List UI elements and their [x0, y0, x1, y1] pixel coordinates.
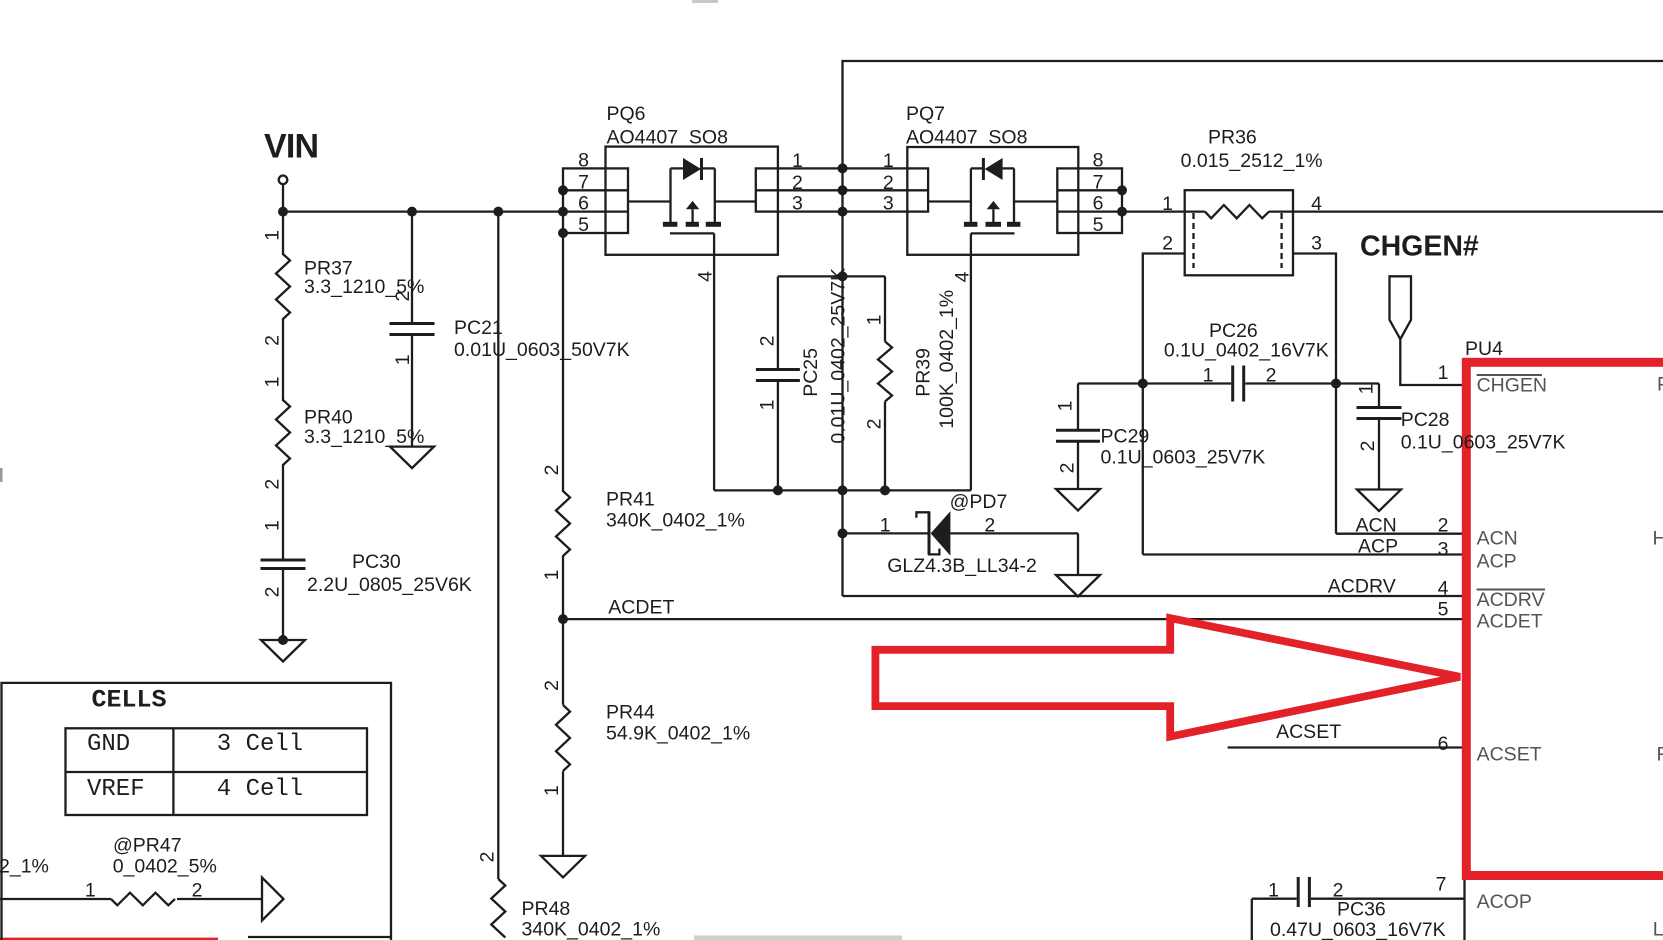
wire PC30 to ground [282, 569, 284, 641]
svg-text:PR36: PR36 [1208, 126, 1257, 148]
ground below PC30 [261, 640, 305, 662]
wire PR36 pin4 to right edge [1269, 210, 1663, 212]
red sliver bottom left [0, 938, 218, 940]
node ACDRV net label [1328, 576, 1396, 598]
wire net ACDET [563, 618, 1464, 620]
svg-text:HI: HI [1653, 527, 1663, 549]
ground below PC28 [1357, 490, 1401, 512]
capacitor C PC21 [390, 212, 630, 447]
wire PR37 to PR40 [282, 318, 284, 401]
svg-text:F: F [1657, 744, 1663, 766]
svg-text:2_1%: 2_1% [0, 856, 49, 878]
svg-text:5: 5 [1093, 214, 1104, 236]
svg-text:PC36: PC36 [1337, 899, 1386, 921]
node junction PC26 dots [1138, 379, 1341, 389]
node junction dots central column [838, 163, 848, 216]
svg-text:5: 5 [578, 214, 589, 236]
svg-text:ACSET: ACSET [1477, 744, 1542, 766]
capacitor C PC28 labels [1401, 409, 1566, 454]
svg-text:2: 2 [262, 479, 284, 490]
node junction rail-PR37 [278, 207, 288, 217]
wire net ACSET [1228, 746, 1464, 748]
svg-text:2: 2 [883, 172, 894, 194]
node junction dots PQ6 left stack [558, 185, 568, 238]
svg-text:3: 3 [1438, 538, 1449, 560]
node junction dots PQ7 right stack [1117, 185, 1127, 216]
svg-text:ACN: ACN [1477, 527, 1518, 549]
capacitor C PC26 [1078, 320, 1379, 402]
ground below PC29 [1056, 489, 1100, 511]
wire PR41 to PR44 [562, 556, 564, 705]
svg-text:0_0402_5%: 0_0402_5% [113, 856, 217, 878]
svg-text:2: 2 [192, 880, 203, 902]
svg-text:GLZ4.3B_LL34-2: GLZ4.3B_LL34-2 [887, 555, 1037, 577]
red highlight box around PU4 [1466, 362, 1663, 875]
svg-text:ACDET: ACDET [1477, 610, 1543, 632]
svg-text:0.1U_0603_25V7K: 0.1U_0603_25V7K [1401, 432, 1566, 454]
svg-text:ACP: ACP [1358, 535, 1398, 557]
svg-text:7: 7 [578, 171, 589, 193]
svg-text:VREF: VREF [87, 776, 145, 803]
svg-text:2.2U_0805_25V6K: 2.2U_0805_25V6K [307, 574, 472, 596]
svg-text:1: 1 [262, 230, 284, 241]
svg-text:@PR47: @PR47 [113, 835, 182, 857]
svg-text:1: 1 [1203, 365, 1214, 387]
svg-text:PC30: PC30 [352, 551, 401, 573]
svg-text:ACDRV: ACDRV [1477, 589, 1545, 611]
svg-text:AO4407_SO8: AO4407_SO8 [607, 127, 728, 149]
svg-text:2: 2 [1266, 365, 1277, 387]
wire PQ7 to PR36 pin1 [1122, 210, 1205, 212]
partial label left edge [0, 856, 49, 878]
svg-text:@PD7: @PD7 [950, 491, 1008, 513]
diode D PD7 zener [843, 491, 1079, 577]
node CHGEN flag [1390, 276, 1465, 385]
svg-text:1: 1 [792, 150, 803, 172]
svg-text:0.47U_0603_16V7K: 0.47U_0603_16V7K [1270, 919, 1446, 940]
svg-text:PC29: PC29 [1101, 426, 1150, 448]
svg-text:PR44: PR44 [606, 702, 655, 724]
svg-text:2: 2 [1057, 463, 1079, 474]
svg-text:1: 1 [757, 400, 779, 411]
pin numbers PU4 [1436, 362, 1449, 895]
svg-text:6: 6 [1438, 733, 1449, 755]
capacitor C PC36 [1268, 877, 1446, 940]
svg-text:340K_0402_1%: 340K_0402_1% [606, 510, 745, 532]
svg-text:1: 1 [262, 520, 284, 531]
svg-text:3.3_1210_5%: 3.3_1210_5% [304, 426, 424, 448]
wire PR40 to PC30 [282, 464, 284, 560]
ground below PR44 [541, 856, 585, 878]
svg-text:0.01U_0603_50V7K: 0.01U_0603_50V7K [454, 339, 630, 361]
wire PC25 PR39 top link [778, 275, 885, 277]
node junction gate bus dots [773, 271, 890, 495]
resistor R PR39 [864, 276, 959, 490]
svg-text:0.01U_0402_25V7K: 0.01U_0402_25V7K [828, 268, 850, 444]
wire PR44 to ground [562, 771, 564, 856]
svg-text:3: 3 [1311, 233, 1322, 255]
svg-text:2: 2 [262, 335, 284, 346]
svg-text:1: 1 [880, 515, 891, 537]
resistor R PR40 [262, 376, 425, 489]
svg-text:3: 3 [883, 193, 894, 215]
svg-text:1: 1 [541, 785, 563, 796]
node ACP net label [1358, 535, 1398, 557]
wire PQ6 pin4 gate drop [713, 255, 715, 491]
svg-text:ACDET: ACDET [608, 597, 674, 619]
svg-text:AO4407_SO8: AO4407_SO8 [906, 127, 1027, 149]
op-amp PU4 charger IC box edge [1465, 338, 1504, 940]
svg-text:0.015_2512_1%: 0.015_2512_1% [1181, 150, 1323, 172]
wire gate bus PQ6 to PQ7 [714, 489, 971, 491]
ground below PD7 [1056, 575, 1100, 597]
svg-text:ACP: ACP [1477, 551, 1517, 573]
svg-text:PR41: PR41 [606, 489, 655, 511]
svg-text:0.1U_0603_25V7K: 0.1U_0603_25V7K [1101, 446, 1266, 468]
capacitor C PC25 [756, 268, 850, 490]
svg-text:2: 2 [541, 465, 563, 476]
svg-text:VIN: VIN [264, 128, 318, 166]
svg-text:54.9K_0402_1%: 54.9K_0402_1% [606, 723, 750, 745]
svg-text:ACSET: ACSET [1276, 721, 1341, 743]
wire PQ6 pin5 column down to PR41 [562, 233, 564, 492]
resistor R PR36 sense [1162, 126, 1323, 275]
svg-text:8: 8 [1093, 149, 1104, 171]
wire PD7 cathode to ground [1077, 533, 1079, 575]
svg-text:1: 1 [1438, 362, 1449, 384]
svg-text:CHGEN#: CHGEN# [1360, 231, 1479, 263]
misc cut-off marks [0, 0, 902, 940]
svg-text:1: 1 [392, 354, 414, 365]
svg-text:2: 2 [757, 336, 779, 347]
svg-text:7: 7 [1093, 171, 1104, 193]
svg-text:P: P [1657, 374, 1663, 396]
node junction ACDET tap [558, 614, 568, 624]
svg-text:1: 1 [85, 880, 96, 902]
svg-text:PC21: PC21 [454, 317, 503, 339]
red annotation arrow [875, 618, 1460, 737]
svg-text:PU4: PU4 [1465, 338, 1503, 360]
off-page pointer PR47 [262, 878, 284, 921]
svg-text:1: 1 [1162, 193, 1173, 215]
svg-text:2: 2 [541, 680, 563, 691]
wire PR36 pin2 drop [1143, 254, 1185, 555]
svg-text:1: 1 [1356, 384, 1378, 395]
svg-text:2: 2 [477, 852, 499, 863]
wire rail to PR48 [497, 212, 499, 879]
node junction PC30-gnd [278, 635, 288, 645]
node ACDET net label [608, 597, 674, 619]
resistor R PR41 [541, 465, 745, 581]
svg-text:1: 1 [1055, 401, 1077, 412]
node junction rail-PR48 [493, 207, 503, 217]
svg-text:0.1U_0402_16V7K: 0.1U_0402_16V7K [1164, 340, 1329, 362]
svg-text:PQ7: PQ7 [906, 103, 945, 125]
resistor R PR44 [541, 680, 750, 796]
capacitor C PC30 [261, 520, 472, 597]
svg-text:2: 2 [392, 291, 414, 302]
svg-text:7: 7 [1436, 873, 1447, 895]
CELLS table [2, 683, 392, 940]
svg-text:4: 4 [1438, 577, 1449, 599]
svg-text:PR48: PR48 [522, 898, 571, 920]
wire net ACN [1336, 533, 1464, 535]
wire PR36 pin3 drop [1293, 254, 1336, 534]
wire net ACOP pin7 [1252, 899, 1464, 940]
node ACN net label [1356, 515, 1397, 537]
node pin stack between PQ6 and PQ7 [756, 150, 928, 215]
wire PQ7 pin4 gate drop [970, 255, 972, 491]
pin names PU4 gray [1477, 374, 1663, 940]
svg-text:3 Cell: 3 Cell [217, 731, 303, 758]
svg-text:ACDRV: ACDRV [1328, 576, 1396, 598]
transistor Q PQ7 [906, 103, 1122, 282]
node junction rail-PC21 [407, 207, 417, 217]
svg-text:340K_0402_1%: 340K_0402_1% [522, 919, 661, 940]
svg-text:2: 2 [262, 587, 284, 598]
resistor R PR37 [262, 212, 425, 346]
svg-text:1: 1 [883, 150, 894, 172]
svg-text:2: 2 [792, 172, 803, 194]
svg-text:PQ6: PQ6 [607, 103, 646, 125]
svg-text:2: 2 [864, 419, 886, 430]
svg-text:CHGEN: CHGEN [1477, 375, 1547, 397]
svg-text:6: 6 [1093, 193, 1104, 215]
wire top net to right edge [843, 61, 1663, 168]
transistor Q PQ6 [563, 103, 778, 282]
svg-text:GND: GND [87, 731, 130, 758]
svg-text:PC28: PC28 [1401, 409, 1450, 431]
node CHGEN# net label [1360, 231, 1479, 263]
wire net ACDRV [843, 595, 1465, 597]
svg-text:ACN: ACN [1356, 515, 1397, 537]
svg-text:5: 5 [1438, 599, 1449, 621]
svg-text:2: 2 [1357, 441, 1379, 452]
svg-text:2: 2 [1438, 514, 1449, 536]
svg-text:PC25: PC25 [800, 348, 822, 397]
node junction PD7 tap [838, 528, 848, 538]
resistor R PR48 [477, 852, 661, 940]
svg-text:ACOP: ACOP [1477, 891, 1532, 913]
svg-text:LO: LO [1653, 919, 1663, 940]
svg-text:4 Cell: 4 Cell [217, 776, 303, 803]
ground below PC21 [390, 447, 434, 469]
wire net ACP [1143, 553, 1464, 555]
node ACSET net label [1276, 721, 1341, 743]
capacitor C PC29 [1055, 384, 1266, 490]
svg-text:1: 1 [864, 315, 886, 326]
svg-text:PR39: PR39 [913, 348, 935, 397]
svg-text:100K_0402_1%: 100K_0402_1% [936, 290, 958, 429]
terminal VIN [279, 176, 288, 212]
svg-text:1: 1 [541, 569, 563, 580]
svg-text:2: 2 [984, 515, 995, 537]
svg-text:1: 1 [262, 376, 284, 387]
svg-text:PR40: PR40 [304, 406, 353, 428]
svg-text:8: 8 [578, 149, 589, 171]
wire central node column [841, 168, 843, 596]
resistor R PR47 [0, 835, 262, 906]
svg-text:3: 3 [792, 193, 803, 215]
svg-text:1: 1 [1268, 880, 1279, 902]
wire VIN rail [283, 210, 563, 212]
node VIN label [264, 128, 318, 166]
capacitor C PC28 [1356, 384, 1402, 490]
svg-text:6: 6 [578, 193, 589, 215]
svg-text:2: 2 [1162, 233, 1173, 255]
svg-text:CELLS: CELLS [92, 686, 167, 715]
